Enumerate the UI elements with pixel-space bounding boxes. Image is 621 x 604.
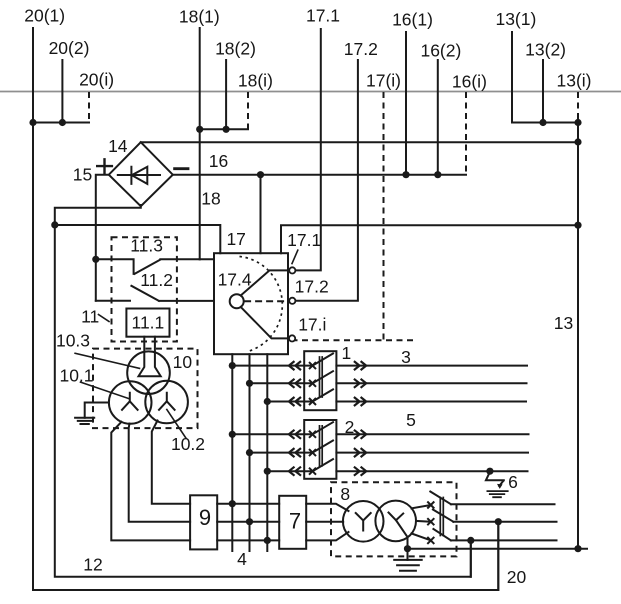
svg-text:13: 13: [554, 313, 573, 333]
svg-text:17.i: 17.i: [298, 315, 326, 335]
svg-text:10.3: 10.3: [56, 331, 90, 351]
svg-text:17.2: 17.2: [295, 277, 329, 297]
svg-text:17(i): 17(i): [366, 71, 401, 91]
svg-text:17.4: 17.4: [218, 270, 252, 290]
svg-text:12: 12: [83, 555, 102, 575]
svg-text:13(i): 13(i): [556, 71, 591, 91]
svg-text:3: 3: [401, 347, 411, 367]
svg-text:16(i): 16(i): [452, 72, 487, 92]
svg-text:16: 16: [209, 151, 228, 171]
svg-text:17.1: 17.1: [287, 230, 321, 250]
svg-text:17.1: 17.1: [306, 6, 340, 26]
svg-text:1: 1: [342, 343, 352, 363]
svg-text:6: 6: [508, 472, 518, 492]
svg-text:18(2): 18(2): [215, 39, 256, 59]
svg-text:20(i): 20(i): [79, 69, 114, 89]
svg-text:18(1): 18(1): [179, 7, 220, 27]
svg-text:11.1: 11.1: [132, 313, 165, 333]
svg-text:18(i): 18(i): [238, 70, 273, 90]
svg-text:5: 5: [406, 410, 416, 430]
svg-text:9: 9: [199, 505, 211, 530]
svg-text:10: 10: [173, 352, 193, 372]
svg-text:14: 14: [108, 136, 128, 156]
svg-text:15: 15: [73, 164, 92, 184]
svg-text:17: 17: [226, 229, 245, 249]
svg-text:11.3: 11.3: [130, 235, 163, 255]
svg-text:20(2): 20(2): [49, 38, 90, 58]
svg-text:11.2: 11.2: [140, 270, 173, 290]
svg-text:10.1: 10.1: [59, 366, 93, 386]
svg-text:13(2): 13(2): [525, 40, 566, 60]
svg-text:4: 4: [237, 549, 247, 569]
svg-text:8: 8: [340, 484, 350, 504]
svg-text:20: 20: [507, 567, 527, 587]
svg-text:2: 2: [345, 417, 355, 437]
svg-text:10.2: 10.2: [171, 434, 205, 454]
svg-text:16(2): 16(2): [420, 41, 461, 61]
svg-text:16(1): 16(1): [392, 10, 433, 30]
svg-text:13(1): 13(1): [495, 9, 536, 29]
svg-text:17.2: 17.2: [344, 39, 378, 59]
svg-text:7: 7: [289, 509, 301, 534]
svg-text:20(1): 20(1): [24, 6, 65, 26]
svg-text:11: 11: [81, 306, 99, 326]
svg-text:18: 18: [201, 189, 220, 209]
